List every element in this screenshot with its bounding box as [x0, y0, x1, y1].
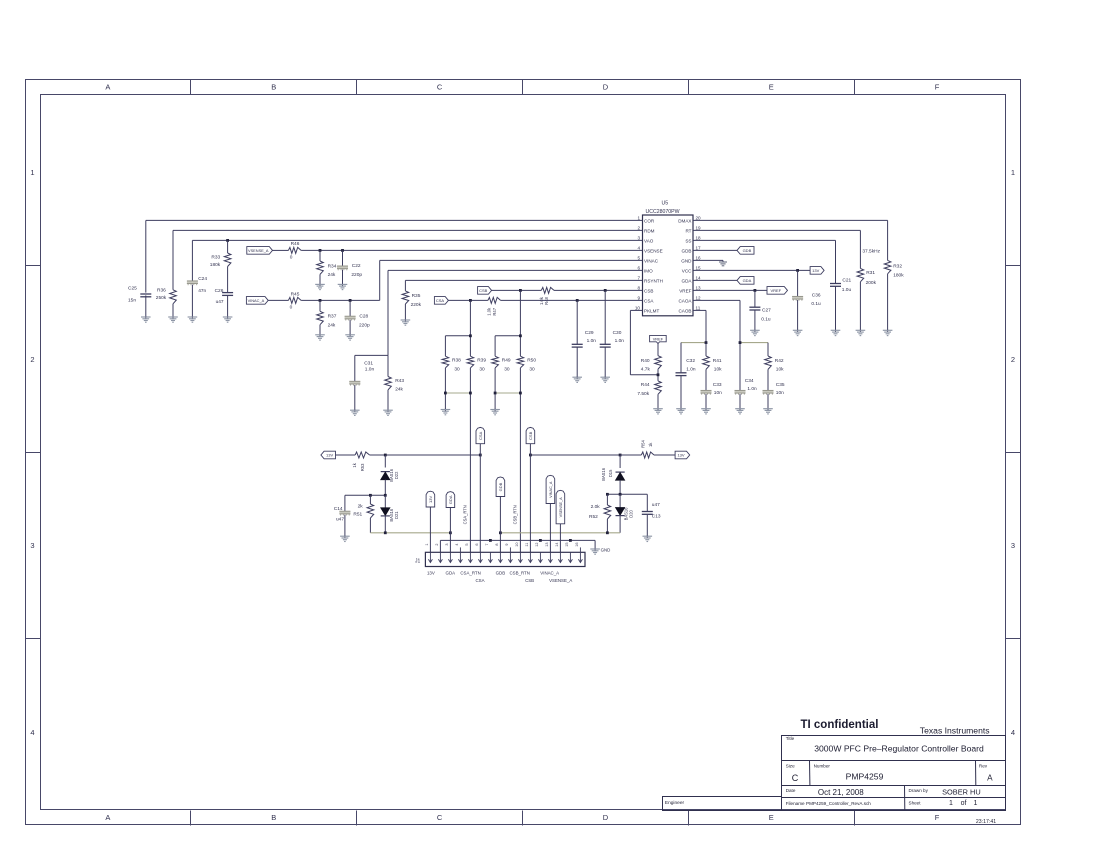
power tag 13V at VCC: [810, 267, 824, 275]
resistor R51 2k: [353, 495, 373, 533]
wire pin7 RSYNTH to R35: [405, 280, 642, 320]
ground under C25: [141, 316, 151, 322]
svg-text:C34: C34: [745, 378, 754, 384]
svg-text:1: 1: [30, 168, 34, 177]
wire R38 top jumper: [445, 336, 470, 356]
wire VSENSE_A to R46: [273, 249, 289, 251]
ground under C31: [350, 409, 360, 415]
ground under C28: [345, 334, 355, 340]
junction bus pin12: [539, 539, 542, 542]
junction R37: [319, 299, 322, 302]
net label CSB: [478, 287, 492, 295]
svg-text:UCC28070PW: UCC28070PW: [646, 209, 680, 215]
svg-text:C22: C22: [352, 263, 361, 269]
net label VSENSE_A: [247, 247, 273, 255]
wire CSA rail to J1 pin5: [469, 368, 471, 552]
connector J1 pin arrows and stubs: [428, 552, 582, 562]
resistor R45 0: [288, 291, 301, 310]
ground under R44: [653, 408, 663, 414]
svg-text:4: 4: [637, 246, 640, 251]
wire pin6 IMO to R43/C31: [355, 270, 643, 410]
svg-text:VREF: VREF: [653, 337, 664, 342]
capacitor C29 1.0n: [572, 330, 597, 347]
svg-text:PKLMT: PKLMT: [644, 308, 660, 313]
svg-text:u47: u47: [216, 299, 224, 305]
connector J1 signal labels row1: [427, 571, 559, 576]
svg-text:10k: 10k: [776, 367, 784, 373]
svg-text:R54: R54: [641, 439, 646, 447]
wire pin19 RT to R31: [693, 230, 860, 330]
junction D20 top: [619, 493, 622, 496]
svg-text:U5: U5: [662, 201, 669, 207]
column dividers top band: [191, 80, 855, 95]
net tag CSA vertical: [476, 427, 485, 552]
svg-text:13: 13: [545, 542, 549, 546]
svg-text:3000W PFC Pre–Regulator Contro: 3000W PFC Pre–Regulator Controller Board: [814, 744, 984, 754]
svg-text:R34: R34: [328, 263, 337, 269]
wire node B horizontal: [345, 494, 385, 496]
svg-text:BAS16: BAS16: [601, 467, 606, 480]
svg-text:12: 12: [535, 542, 539, 546]
ground under C14: [340, 535, 350, 541]
ground under C32: [676, 408, 686, 414]
wire GND bus: [440, 540, 595, 552]
column dividers bottom band: [191, 811, 855, 826]
svg-text:Sheet: Sheet: [909, 801, 922, 806]
wire pin16 GND stub: [693, 260, 723, 262]
junction C36: [796, 269, 799, 272]
ground under C22: [338, 283, 348, 289]
svg-text:R52: R52: [589, 514, 598, 520]
wire CSB rail to J1 pin10: [519, 368, 521, 552]
svg-text:R51: R51: [353, 512, 362, 518]
wire R49 top jumper: [495, 336, 520, 356]
svg-text:11: 11: [525, 543, 529, 547]
title block texts: [786, 736, 993, 807]
svg-text:C24: C24: [198, 276, 207, 282]
svg-text:R39: R39: [477, 357, 486, 363]
svg-text:CSB_RTN: CSB_RTN: [509, 571, 529, 576]
svg-text:Size: Size: [786, 763, 795, 768]
svg-text:Engineer: Engineer: [665, 800, 685, 806]
svg-text:4: 4: [455, 544, 459, 546]
ground under C26: [223, 316, 233, 322]
svg-text:B: B: [271, 813, 276, 822]
row numbers left: [30, 168, 34, 737]
svg-text:220p: 220p: [359, 322, 370, 328]
power tag 13V left: [321, 451, 336, 459]
wire pin10 PKLMT to R40/R44 node: [630, 310, 658, 374]
svg-text:D20: D20: [628, 510, 633, 518]
svg-text:Filename: Filename: [786, 801, 805, 806]
wire GDB olive segment: [500, 532, 620, 534]
capacitor C27 0.1u: [749, 307, 771, 322]
svg-text:D21: D21: [394, 511, 399, 519]
svg-text:1.0u: 1.0u: [842, 287, 852, 293]
svg-text:7.50k: 7.50k: [637, 391, 649, 397]
svg-text:TI confidential: TI confidential: [801, 719, 879, 731]
svg-text:0.1u: 0.1u: [761, 316, 771, 322]
svg-text:CSB_RTN: CSB_RTN: [512, 505, 517, 524]
resistor R54 1k: [620, 439, 675, 458]
svg-text:C26: C26: [215, 288, 224, 294]
svg-text:C: C: [437, 813, 443, 822]
frequency note 37.5kHz: [862, 248, 880, 254]
junction C28: [349, 299, 352, 302]
svg-text:3: 3: [1011, 541, 1015, 550]
svg-text:CSB: CSB: [528, 431, 533, 440]
column letters bottom: [105, 813, 939, 822]
svg-text:5: 5: [465, 544, 469, 546]
junction R49 bottom: [494, 392, 497, 395]
svg-text:VSENSE: VSENSE: [644, 248, 663, 253]
svg-text:VSENSE_A: VSENSE_A: [559, 497, 563, 518]
svg-text:CAOB: CAOB: [678, 308, 691, 313]
wire VINAC_A to R45: [268, 299, 288, 301]
ground under R37: [315, 334, 325, 340]
ground under R31: [856, 329, 866, 335]
svg-text:180k: 180k: [893, 273, 904, 279]
svg-text:GND: GND: [681, 258, 692, 263]
junction D15 top: [619, 454, 622, 457]
svg-text:2.0k: 2.0k: [591, 504, 601, 510]
svg-text:R36: R36: [157, 287, 166, 293]
capacitor C14 u47: [334, 495, 351, 536]
junction C30: [604, 289, 607, 292]
ground under C34: [735, 408, 745, 414]
svg-text:4: 4: [1011, 728, 1015, 737]
junction CAOB C32: [705, 341, 708, 344]
ground under C36: [793, 329, 803, 335]
svg-text:200k: 200k: [866, 280, 877, 286]
net tag VSENSE_A vertical: [556, 490, 565, 552]
svg-text:SS: SS: [685, 238, 691, 243]
svg-text:R45: R45: [291, 291, 300, 297]
connector J1 body: [425, 552, 585, 566]
resistor R32 180k: [884, 260, 904, 278]
resistor R36 250k: [156, 287, 177, 303]
wire pin12 CAOA down: [693, 300, 740, 342]
svg-text:4.7k: 4.7k: [641, 366, 651, 372]
svg-text:0: 0: [290, 305, 293, 311]
junction R34: [319, 249, 322, 252]
svg-text:16: 16: [575, 542, 579, 546]
junction R52 bottom: [606, 531, 609, 534]
capacitor C21 1.0u: [830, 277, 852, 292]
svg-text:10k: 10k: [714, 367, 722, 373]
power tag 13V vertical at J1 pin1: [426, 491, 435, 552]
svg-text:19: 19: [696, 226, 702, 231]
svg-text:1: 1: [637, 216, 640, 221]
wire pin2 RDM net: [173, 230, 643, 317]
junction rail top jumper CSA: [469, 334, 472, 337]
svg-text:u47: u47: [336, 517, 344, 523]
net label GDB: [737, 247, 754, 255]
wire C36 branch: [797, 270, 799, 330]
connector J1 signal labels row2: [475, 578, 572, 583]
resistor R41 10k: [703, 356, 722, 373]
svg-text:13V: 13V: [326, 453, 333, 458]
wire R49 bottom jumper (olive): [495, 368, 520, 410]
svg-text:30: 30: [479, 367, 485, 373]
svg-text:30: 30: [454, 367, 460, 373]
svg-text:1.0n: 1.0n: [365, 366, 375, 372]
svg-text:1: 1: [1011, 168, 1015, 177]
capacitor C30 1.0n: [600, 330, 625, 347]
svg-text:C21: C21: [842, 277, 851, 283]
resistor R49 30: [492, 356, 511, 372]
wire pin18 SS to C21: [693, 240, 836, 330]
junction CSB stadium node: [529, 454, 532, 457]
svg-text:VAO: VAO: [644, 238, 654, 243]
svg-text:180k: 180k: [210, 262, 221, 268]
svg-text:16: 16: [696, 256, 702, 261]
capacitor C34 1.0n: [735, 378, 758, 395]
junction R52 top: [606, 493, 609, 496]
svg-text:3: 3: [30, 541, 34, 550]
resistor R48 1.0k: [539, 287, 554, 305]
svg-text:C29: C29: [585, 330, 594, 336]
svg-text:11: 11: [696, 306, 701, 311]
svg-text:A: A: [105, 83, 110, 92]
svg-text:CSB: CSB: [525, 578, 534, 583]
svg-text:D15: D15: [608, 469, 613, 477]
svg-text:D22: D22: [394, 471, 399, 479]
wire CSA rail top: [469, 300, 471, 356]
svg-text:F: F: [935, 83, 940, 92]
svg-text:SOBER HU: SOBER HU: [942, 787, 981, 796]
svg-text:C30: C30: [613, 330, 622, 336]
note TI confidential: [801, 719, 879, 731]
svg-text:IMO: IMO: [644, 268, 653, 273]
svg-text:9: 9: [505, 544, 509, 546]
wire C22 branch: [342, 250, 344, 284]
resistor R53 1k: [352, 452, 369, 471]
svg-text:C27: C27: [762, 308, 771, 314]
net label VINAC_A: [246, 297, 268, 305]
op-amp U5 UCC28070PW body: [643, 215, 694, 316]
svg-text:2: 2: [435, 544, 439, 546]
ground under C24: [188, 316, 198, 322]
svg-text:R33: R33: [211, 254, 220, 260]
net tag GDA vertical: [446, 492, 455, 553]
wire VREF to R40: [657, 344, 659, 409]
svg-text:250k: 250k: [156, 295, 167, 301]
ground under R34: [315, 283, 325, 289]
svg-text:CSA: CSA: [644, 298, 654, 303]
svg-text:Drawn by: Drawn by: [909, 788, 929, 793]
svg-text:C33: C33: [713, 382, 722, 388]
svg-text:13V: 13V: [428, 496, 433, 503]
wire R38 bottom jumper (olive): [445, 368, 470, 410]
svg-text:GDA: GDA: [682, 278, 693, 283]
svg-text:13: 13: [696, 286, 702, 291]
svg-text:20: 20: [696, 216, 702, 221]
resistor R34 24k: [317, 261, 337, 278]
svg-text:Date: Date: [786, 788, 796, 793]
svg-text:14: 14: [696, 276, 702, 281]
svg-text:37.5kHz: 37.5kHz: [862, 248, 880, 254]
junction R38 bottom: [444, 392, 447, 395]
svg-text:14: 14: [555, 542, 559, 546]
wire CAOA node olive to R42: [740, 343, 768, 409]
wire R47 to U5 pin9: [501, 299, 643, 301]
svg-text:6: 6: [475, 544, 479, 546]
U5 value UCC28070PW: [646, 209, 680, 215]
svg-text:C36: C36: [812, 292, 821, 298]
engineer box: [663, 797, 782, 811]
svg-text:B: B: [271, 83, 276, 92]
wire CSB rail top: [519, 290, 521, 356]
wire 13V to R53: [336, 454, 356, 456]
svg-text:3: 3: [445, 544, 449, 546]
svg-text:R37: R37: [328, 314, 337, 320]
svg-text:24k: 24k: [328, 272, 336, 278]
sheet inner border: [41, 95, 1006, 810]
svg-text:15: 15: [696, 266, 702, 271]
wire R46 to U5 pin4: [301, 249, 642, 251]
svg-text:8: 8: [495, 544, 499, 546]
svg-text:GDB: GDB: [682, 248, 692, 253]
svg-text:CAOA: CAOA: [678, 298, 692, 303]
svg-text:7: 7: [637, 276, 640, 281]
svg-text:10n: 10n: [776, 390, 784, 396]
svg-text:1.0n: 1.0n: [747, 386, 757, 392]
svg-text:Texas Instruments: Texas Instruments: [920, 725, 990, 735]
svg-text:DMAX: DMAX: [678, 218, 691, 223]
svg-text:GDB: GDB: [743, 248, 752, 253]
svg-text:2k: 2k: [358, 504, 364, 510]
svg-text:Oct 21, 2008: Oct 21, 2008: [818, 788, 864, 797]
svg-text:VINAC_A: VINAC_A: [248, 298, 265, 303]
svg-text:24k: 24k: [395, 386, 403, 392]
capacitor C35 10n: [763, 382, 785, 396]
svg-text:R53: R53: [360, 463, 365, 471]
svg-text:R44: R44: [641, 382, 650, 388]
wire R34 branch: [319, 250, 321, 284]
svg-text:1.0n: 1.0n: [587, 338, 597, 344]
svg-text:Title: Title: [786, 736, 795, 741]
svg-text:E: E: [769, 83, 774, 92]
net label GDA: [737, 277, 754, 285]
net label VREF above R40: [650, 335, 667, 343]
svg-text:47n: 47n: [198, 288, 206, 294]
diode D20 BAS16: [616, 494, 634, 533]
resistor R42 10k: [765, 356, 784, 373]
capacitor C13 u47: [642, 494, 661, 536]
svg-text:13V: 13V: [427, 571, 435, 576]
net name CSA_RTN on rail: [462, 505, 467, 524]
svg-text:10: 10: [635, 306, 641, 311]
svg-text:R50: R50: [527, 357, 536, 363]
svg-text:GDA: GDA: [446, 571, 456, 576]
capacitor C32 1.0n: [676, 358, 696, 376]
net tag CSB vertical: [526, 427, 535, 552]
svg-text:13V: 13V: [677, 453, 684, 458]
wire R42 C35 branch: [767, 343, 769, 409]
column letters top: [105, 83, 939, 92]
svg-text:R42: R42: [775, 358, 784, 364]
junction C22: [341, 249, 344, 252]
svg-text:RSYNTH: RSYNTH: [644, 278, 663, 283]
capacitor C26 u47: [215, 288, 234, 305]
svg-text:CSA_RTN: CSA_RTN: [460, 571, 480, 576]
wire R53 to CSA pin6 net: [370, 454, 481, 456]
connector J1 unconnected pin stubs: [460, 547, 580, 552]
ground under R32: [883, 329, 893, 335]
U5 right pin names and numbers: [678, 216, 701, 314]
net name CSB_RTN on rail: [512, 505, 517, 524]
junction bus pin7: [489, 539, 492, 542]
wire C30 branch: [604, 290, 606, 377]
svg-text:of: of: [961, 800, 967, 807]
junction D21 bottom: [384, 531, 387, 534]
junction rail bottom CSA: [469, 392, 472, 395]
svg-text:C14: C14: [334, 506, 343, 512]
svg-text:C13: C13: [652, 513, 661, 519]
svg-text:2: 2: [1011, 355, 1015, 364]
resistor R40 4.7k: [641, 356, 662, 373]
ground under R49: [490, 409, 500, 415]
wire CSB to R48: [492, 289, 542, 291]
resistor R47 1.0k: [487, 297, 501, 315]
svg-text:18: 18: [696, 236, 702, 241]
svg-text:VINAC: VINAC: [644, 258, 659, 263]
wire pin15 VCC to 13V: [693, 269, 810, 271]
sheet outer border: [26, 80, 1021, 825]
wire CSB net to R54: [530, 454, 620, 456]
svg-text:6: 6: [637, 266, 640, 271]
resistor R44 7.50k: [637, 381, 661, 397]
svg-text:R47: R47: [492, 307, 497, 315]
svg-text:VINAC_A: VINAC_A: [549, 481, 553, 498]
svg-text:Number: Number: [814, 763, 831, 768]
junction R51 top: [369, 494, 372, 497]
capacitor C24 47n: [187, 276, 207, 294]
svg-text:24k: 24k: [328, 322, 336, 328]
svg-text:0: 0: [290, 255, 293, 261]
svg-text:COR: COR: [644, 218, 655, 223]
wire CSA to R47: [448, 299, 488, 301]
wire pin20 DMAX to R32: [693, 220, 888, 330]
row dividers left band: [26, 266, 41, 639]
svg-text:2: 2: [30, 355, 34, 364]
resistor R38 30: [442, 356, 461, 372]
svg-text:15n: 15n: [128, 298, 136, 304]
junction D22 top: [384, 454, 387, 457]
svg-text:1.0n: 1.0n: [686, 367, 696, 373]
wire pin11 CAOB down: [693, 310, 706, 342]
svg-text:F: F: [935, 813, 940, 822]
junction C29: [576, 299, 579, 302]
svg-text:VINAC_A: VINAC_A: [540, 571, 559, 576]
svg-text:17: 17: [696, 246, 702, 251]
net tag GDB vertical: [496, 477, 505, 552]
resistor R46 0: [288, 241, 301, 260]
capacitor C25: [128, 286, 151, 304]
junction CSB rail: [519, 289, 522, 292]
ground under R43: [383, 409, 393, 415]
svg-text:23:17:41: 23:17:41: [976, 819, 996, 825]
svg-text:C25: C25: [128, 286, 137, 292]
junction rail top jumper CSB: [519, 334, 522, 337]
resistor R37 24k: [317, 311, 337, 328]
wire R33 branch: [227, 240, 229, 317]
wire C28 branch: [349, 300, 351, 334]
capacitor C22 220p: [337, 263, 362, 278]
svg-text:CSA: CSA: [475, 578, 484, 583]
wire pin13 VREF stub: [693, 289, 767, 291]
